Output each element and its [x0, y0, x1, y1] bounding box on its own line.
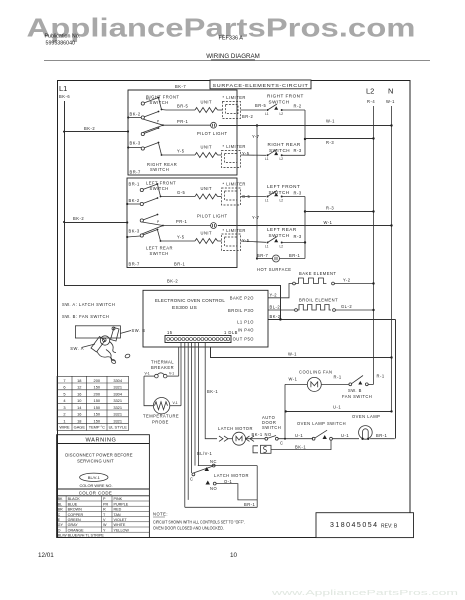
- svg-text:BK-2: BK-2: [130, 112, 141, 117]
- svg-text:R-3: R-3: [294, 148, 302, 153]
- door plug tail 1: [111, 359, 117, 365]
- svg-text:GREEN: GREEN: [68, 518, 81, 522]
- wire BK-2 from L1 to bank2: [64, 222, 127, 224]
- svg-text:ELECTRONIC OVEN CONTROL: ELECTRONIC OVEN CONTROL: [155, 298, 225, 304]
- svg-text:R-3: R-3: [294, 234, 302, 239]
- svg-text:SWITCH: SWITCH: [150, 251, 169, 256]
- svg-text:Y-5: Y-5: [177, 149, 185, 154]
- svg-text:G-5: G-5: [177, 190, 186, 195]
- svg-text:BK-1: BK-1: [252, 432, 263, 437]
- svg-text:U-1: U-1: [333, 404, 341, 409]
- svg-text:RIGHT FRONT: RIGHT FRONT: [146, 95, 179, 100]
- svg-text:1 DLB: 1 DLB: [224, 330, 238, 335]
- svg-text:W-1: W-1: [386, 99, 395, 104]
- svg-text:* LIMITER: * LIMITER: [223, 144, 246, 149]
- svg-text:150: 150: [94, 385, 101, 390]
- svg-text:* LIMITER: * LIMITER: [223, 182, 246, 187]
- svg-text:15: 15: [167, 330, 173, 335]
- svg-text:PILOT LIGHT: PILOT LIGHT: [197, 214, 227, 219]
- svg-text:L1 P1O: L1 P1O: [237, 320, 254, 325]
- svg-text:TEMP °C: TEMP °C: [89, 425, 105, 430]
- svg-text:P: P: [157, 120, 159, 124]
- wire W-1 pilot2 to N: [218, 225, 392, 227]
- cooling fan motor: [285, 383, 307, 385]
- svg-text:BK-3: BK-3: [130, 141, 141, 146]
- svg-text:C: C: [280, 441, 283, 446]
- color code table: [57, 488, 150, 490]
- svg-text:L2: L2: [366, 87, 374, 96]
- svg-text:BAKE P2O: BAKE P2O: [230, 296, 254, 301]
- svg-text:SW. A: LATCH SWITCH: SW. A: LATCH SWITCH: [62, 302, 115, 307]
- svg-text:PILOT LIGHT: PILOT LIGHT: [197, 131, 227, 136]
- svg-text:CIRCUIT SHOWN WITH ALL CONTROL: CIRCUIT SHOWN WITH ALL CONTROLS SET TO "…: [153, 520, 245, 525]
- svg-text:PROBE: PROBE: [152, 420, 169, 425]
- wire W-1 pilot to N: [219, 125, 392, 127]
- svg-text:BR-7: BR-7: [257, 253, 269, 258]
- svg-text:SW. B: FAN SWITCH: SW. B: FAN SWITCH: [62, 314, 109, 319]
- svg-text:NOTE:: NOTE:: [153, 512, 168, 517]
- wire Y-7 vertical common: [256, 126, 258, 259]
- svg-text:U-1: U-1: [295, 433, 303, 438]
- svg-text:BAKE ELEMENT: BAKE ELEMENT: [299, 271, 336, 276]
- svg-text:10: 10: [230, 552, 238, 559]
- svg-text:3321: 3321: [113, 385, 122, 390]
- wire BK-2 long run to EOC: [64, 286, 281, 320]
- svg-text:Publication No.: Publication No.: [45, 34, 81, 40]
- svg-text:SWITCH: SWITCH: [269, 233, 290, 238]
- svg-text:3: 3: [63, 405, 65, 410]
- switch SW-LF terminals: [140, 188, 143, 191]
- svg-text:HOT SURFACE: HOT SURFACE: [257, 267, 292, 272]
- svg-text:* LIMITER: * LIMITER: [223, 95, 246, 100]
- svg-text:OVEN LAMP: OVEN LAMP: [352, 414, 380, 419]
- svg-text:GY: GY: [58, 523, 64, 527]
- svg-text:SW. B: SW. B: [132, 328, 146, 333]
- wire Y-2 bake to L2: [334, 283, 373, 285]
- svg-text:1: 1: [63, 418, 65, 423]
- wire O-1: [216, 484, 257, 500]
- svg-text:R: R: [103, 508, 106, 512]
- svg-text:ORANGE: ORANGE: [68, 528, 85, 532]
- svg-text:NC: NC: [210, 459, 217, 464]
- switch assembly box left front/rear: [127, 178, 237, 268]
- svg-text:FEF336 A: FEF336 A: [219, 36, 244, 42]
- svg-text:GL-2: GL-2: [341, 304, 352, 309]
- svg-text:LATCH MOTOR: LATCH MOTOR: [214, 473, 249, 478]
- pin wire BK-1 to latch motor: [205, 343, 217, 439]
- svg-text:OVEN LAMP SWITCH: OVEN LAMP SWITCH: [297, 421, 346, 426]
- svg-text:BK-2: BK-2: [73, 216, 84, 221]
- svg-text:OVEN DOOR CLOSED AND UNLOCKED.: OVEN DOOR CLOSED AND UNLOCKED.: [153, 526, 224, 531]
- svg-text:SWITCH: SWITCH: [150, 167, 169, 172]
- svg-text:RIGHT FRONT: RIGHT FRONT: [267, 94, 304, 99]
- svg-text:YELLOW: YELLOW: [114, 528, 130, 532]
- switch SW-RR terminals: [141, 132, 144, 135]
- svg-text:V-1: V-1: [173, 401, 178, 405]
- svg-text:318045054: 318045054: [330, 522, 377, 529]
- svg-text:REV: B: REV: B: [381, 524, 398, 530]
- pin wire to latch box top: [194, 343, 196, 466]
- svg-text:COLOR CODE: COLOR CODE: [79, 491, 113, 496]
- svg-text:6: 6: [63, 385, 65, 390]
- hot surface pilot light: [257, 258, 272, 260]
- wire R-3 corner down bank2: [304, 197, 306, 243]
- svg-text:PURPLE: PURPLE: [114, 502, 129, 506]
- svg-text:N: N: [388, 87, 393, 96]
- wire BR-5 to unit: [166, 109, 195, 111]
- svg-text:V-1: V-1: [145, 372, 150, 376]
- svg-text:Y-5: Y-5: [242, 238, 250, 243]
- svg-text:UNIT: UNIT: [201, 186, 213, 191]
- svg-text:Y-7: Y-7: [252, 215, 260, 220]
- svg-text:U-1: U-1: [341, 433, 349, 438]
- wire bake to EOC: [268, 284, 293, 298]
- svg-text:18: 18: [77, 418, 81, 423]
- warning box: [57, 435, 150, 538]
- svg-text:Y-7: Y-7: [252, 134, 260, 139]
- svg-text:RIGHT REAR: RIGHT REAR: [268, 142, 301, 147]
- door latch mechanism drawing: [75, 326, 120, 338]
- svg-text:12/01: 12/01: [38, 552, 54, 559]
- svg-text:BROIL P3O: BROIL P3O: [228, 308, 254, 313]
- svg-text:R-3: R-3: [294, 191, 302, 196]
- svg-text:3321: 3321: [113, 418, 122, 423]
- svg-text:L2: L2: [280, 112, 284, 116]
- switch pivot links pilot tap bank2: [142, 222, 163, 234]
- svg-text:BL/V-1: BL/V-1: [197, 451, 213, 456]
- svg-text:BK-1: BK-1: [207, 389, 218, 394]
- svg-text:BR: BR: [58, 508, 63, 512]
- svg-text:BR-2: BR-2: [242, 114, 254, 119]
- svg-text:L2: L2: [280, 244, 284, 248]
- wire L2 vertical: [373, 106, 375, 384]
- svg-text:3304: 3304: [113, 391, 122, 396]
- schematic outer border: [58, 81, 411, 538]
- pin wire: [187, 343, 189, 500]
- electronic oven control EOC: [143, 290, 268, 347]
- svg-text:PR-1: PR-1: [177, 119, 189, 124]
- svg-text:BROWN: BROWN: [68, 508, 82, 512]
- svg-text:150: 150: [94, 398, 101, 403]
- svg-text:3304: 3304: [113, 378, 122, 383]
- door plug connector: [253, 446, 258, 453]
- wire BK-1 to lamp switch: [271, 440, 331, 450]
- svg-text:LEFT REAR: LEFT REAR: [267, 227, 297, 232]
- svg-text:R-3: R-3: [326, 140, 334, 145]
- svg-text:Y-2: Y-2: [270, 293, 278, 298]
- svg-text:www.AppliancePartsPros.com: www.AppliancePartsPros.com: [270, 588, 458, 597]
- wire R-3 to L2: [305, 138, 374, 140]
- svg-text:GRAY: GRAY: [68, 523, 79, 527]
- svg-text:LEFT FRONT: LEFT FRONT: [267, 184, 300, 189]
- switch assembly box right front/rear: [128, 90, 237, 175]
- svg-text:5: 5: [63, 391, 65, 396]
- wire lamp feed vertical: [395, 320, 397, 439]
- wire number oval BL/V-1: [80, 473, 108, 481]
- svg-text:W: W: [103, 523, 107, 527]
- svg-text:SURFACE-ELEMENTS-CIRCUIT: SURFACE-ELEMENTS-CIRCUIT: [213, 83, 309, 88]
- svg-text:BK-6: BK-6: [59, 94, 70, 99]
- svg-text:BREAKER: BREAKER: [151, 365, 174, 370]
- wire Y-5 to unit left rear: [166, 240, 195, 242]
- svg-text:BR-1: BR-1: [289, 253, 301, 258]
- wire R-3 left front to L2: [305, 211, 374, 213]
- svg-text:V-1: V-1: [169, 372, 174, 376]
- svg-text:R-4: R-4: [367, 99, 375, 104]
- wire W-1 bus: [211, 347, 392, 358]
- wire Y-5 to unit right rear: [166, 154, 195, 156]
- svg-text:UNIT: UNIT: [201, 145, 213, 150]
- svg-text:NO: NO: [210, 486, 217, 491]
- svg-text:5995386040: 5995386040: [46, 41, 76, 47]
- pin wire V-1 to probe: [180, 343, 182, 406]
- wire broil to EOC: [268, 309, 295, 311]
- svg-text:L1: L1: [265, 157, 269, 161]
- svg-text:O: O: [58, 528, 61, 532]
- svg-text:BR-1: BR-1: [174, 262, 186, 267]
- svg-text:W-1: W-1: [289, 377, 298, 382]
- svg-text:TEMPERATURE: TEMPERATURE: [143, 414, 179, 419]
- svg-text:UNIT: UNIT: [201, 231, 213, 236]
- svg-text:LEFT FRONT: LEFT FRONT: [146, 181, 176, 186]
- svg-text:200: 200: [94, 378, 101, 383]
- svg-text:16: 16: [77, 391, 81, 396]
- svg-text:L2: L2: [280, 157, 284, 161]
- svg-text:BR-5: BR-5: [255, 103, 267, 108]
- svg-text:BL-2: BL-2: [270, 305, 281, 310]
- svg-text:VIOLET: VIOLET: [114, 518, 128, 522]
- svg-text:COOLING FAN: COOLING FAN: [299, 370, 332, 375]
- pin wire to latch common: [191, 343, 193, 474]
- svg-text:150: 150: [94, 412, 101, 417]
- svg-text:DISCONNECT POWER BEFORE: DISCONNECT POWER BEFORE: [65, 452, 133, 457]
- svg-text:THERMAL: THERMAL: [151, 360, 174, 365]
- svg-text:LATCH MOTOR: LATCH MOTOR: [218, 426, 253, 431]
- wire BK-2 EOC to lamp feed: [268, 319, 396, 321]
- wire N vertical: [391, 106, 393, 412]
- svg-text:ES300 US: ES300 US: [172, 305, 197, 311]
- svg-text:16: 16: [77, 412, 81, 417]
- svg-text:12: 12: [77, 385, 81, 390]
- part number box: [316, 513, 414, 538]
- svg-text:150: 150: [94, 405, 101, 410]
- switch pivot links pilot tap: [143, 119, 163, 133]
- switch SW-RF terminals: [141, 102, 144, 105]
- svg-text:7: 7: [63, 378, 65, 383]
- svg-text:3321: 3321: [113, 398, 122, 403]
- svg-text:SW. B: SW. B: [348, 388, 362, 393]
- svg-text:WHITE: WHITE: [114, 523, 126, 527]
- svg-text:R-1: R-1: [334, 375, 342, 380]
- svg-text:BR-7: BR-7: [129, 262, 141, 267]
- svg-text:SW. A: SW. A: [70, 346, 84, 351]
- svg-text:150: 150: [94, 418, 101, 423]
- title box SURFACE-ELEMENTS-CIRCUIT: [210, 80, 311, 89]
- pilot light 2: [164, 225, 211, 227]
- svg-text:BK-2: BK-2: [84, 126, 95, 131]
- svg-text:L2: L2: [280, 198, 284, 202]
- svg-text:Y-5: Y-5: [177, 235, 185, 240]
- svg-text:BL: BL: [58, 502, 63, 506]
- svg-text:3321: 3321: [113, 412, 122, 417]
- svg-text:COLOR WIRE NO.: COLOR WIRE NO.: [79, 483, 112, 488]
- svg-text:BLUE/WH TL STRIPE: BLUE/WH TL STRIPE: [68, 534, 105, 538]
- svg-text:BR-1: BR-1: [376, 433, 388, 438]
- wire W-1 lamp bus: [286, 411, 392, 413]
- svg-text:SWITCH: SWITCH: [262, 425, 281, 430]
- svg-text:L1: L1: [265, 244, 269, 248]
- svg-text:NO: NO: [265, 432, 272, 437]
- svg-text:BL/W: BL/W: [58, 534, 68, 538]
- svg-text:WARNING: WARNING: [85, 438, 116, 444]
- wire R-2 corner down: [304, 110, 306, 155]
- wire gauge table: [57, 376, 129, 430]
- wire BK-2 from L1 to bank1: [64, 131, 128, 133]
- pin wire: [197, 343, 199, 466]
- svg-text:BK-2: BK-2: [167, 279, 178, 284]
- svg-text:* LIMITER: * LIMITER: [223, 228, 246, 233]
- svg-text:L1: L1: [59, 84, 67, 93]
- svg-text:PR: PR: [103, 502, 108, 506]
- svg-text:UNIT: UNIT: [201, 100, 213, 105]
- door plug tail 2: [125, 354, 131, 359]
- connector strip P1: [165, 336, 231, 343]
- header rule: [44, 60, 430, 62]
- svg-text:SWITCH: SWITCH: [269, 99, 290, 104]
- svg-text:WIRING DIAGRAM: WIRING DIAGRAM: [206, 53, 260, 60]
- temperature probe: [153, 398, 169, 414]
- svg-text:Y-2: Y-2: [343, 278, 351, 283]
- svg-text:BK-2: BK-2: [270, 314, 281, 319]
- svg-text:L1: L1: [265, 198, 269, 202]
- svg-text:3321: 3321: [113, 405, 122, 410]
- svg-text:BLACK: BLACK: [68, 497, 81, 501]
- svg-text:L1: L1: [265, 112, 269, 116]
- svg-text:BK-2: BK-2: [129, 198, 140, 203]
- wire GL-2 broil to L2: [335, 309, 373, 311]
- svg-text:SERVICING UNIT: SERVICING UNIT: [77, 459, 114, 464]
- svg-text:C: C: [190, 477, 193, 482]
- svg-text:BR-5: BR-5: [177, 104, 189, 109]
- svg-text:IN P4O: IN P4O: [238, 328, 254, 333]
- svg-text:BR-1: BR-1: [244, 502, 256, 507]
- svg-text:BLUE: BLUE: [68, 502, 78, 506]
- wire breaker to probe: [144, 376, 153, 406]
- switch SW-LR terminals: [140, 219, 143, 222]
- svg-text:BR-1: BR-1: [129, 182, 141, 187]
- svg-text:BR-7: BR-7: [130, 170, 142, 175]
- fan switch SW-B: [349, 383, 352, 386]
- svg-text:H1: H1: [146, 97, 150, 101]
- svg-text:W-1: W-1: [326, 119, 335, 124]
- wire G-5 to unit: [166, 196, 195, 198]
- svg-text:R-3: R-3: [326, 206, 334, 211]
- svg-text:P: P: [157, 220, 159, 224]
- svg-text:BK-1: BK-1: [295, 444, 306, 449]
- svg-text:W-1: W-1: [324, 220, 333, 225]
- wire L1 vertical BK-6: [64, 101, 66, 286]
- svg-text:LEFT REAR: LEFT REAR: [146, 246, 173, 251]
- svg-text:18: 18: [77, 378, 81, 383]
- svg-text:BROIL ELEMENT: BROIL ELEMENT: [299, 298, 338, 303]
- svg-text:BK: BK: [58, 497, 63, 501]
- svg-text:BK-3: BK-3: [129, 229, 140, 234]
- svg-text:UL STYLE: UL STYLE: [109, 425, 128, 430]
- svg-text:WIRE: WIRE: [59, 425, 70, 430]
- svg-text:BK-7: BK-7: [175, 84, 186, 89]
- svg-text:R-1: R-1: [377, 374, 385, 379]
- svg-text:BL/V-1: BL/V-1: [88, 475, 101, 480]
- pilot light 1: [164, 124, 211, 126]
- svg-text:200: 200: [94, 391, 101, 396]
- svg-text:C: C: [58, 513, 61, 517]
- svg-text:PINK: PINK: [114, 497, 123, 501]
- svg-text:GAGE: GAGE: [74, 425, 86, 430]
- svg-text:TAN: TAN: [114, 513, 121, 517]
- svg-text:FAN SWITCH: FAN SWITCH: [342, 394, 372, 399]
- svg-text:COPPER: COPPER: [68, 513, 84, 517]
- svg-text:2: 2: [63, 412, 65, 417]
- svg-text:OUT P5O: OUT P5O: [233, 337, 254, 342]
- svg-text:RED: RED: [114, 508, 122, 512]
- svg-text:PR-1: PR-1: [176, 219, 188, 224]
- svg-text:R-2: R-2: [294, 104, 302, 109]
- latch motor switch box: [198, 465, 257, 467]
- svg-text:W-1: W-1: [288, 352, 297, 357]
- wire BK-7 top bus: [128, 89, 210, 91]
- pin wire to latch box corner: [184, 343, 186, 508]
